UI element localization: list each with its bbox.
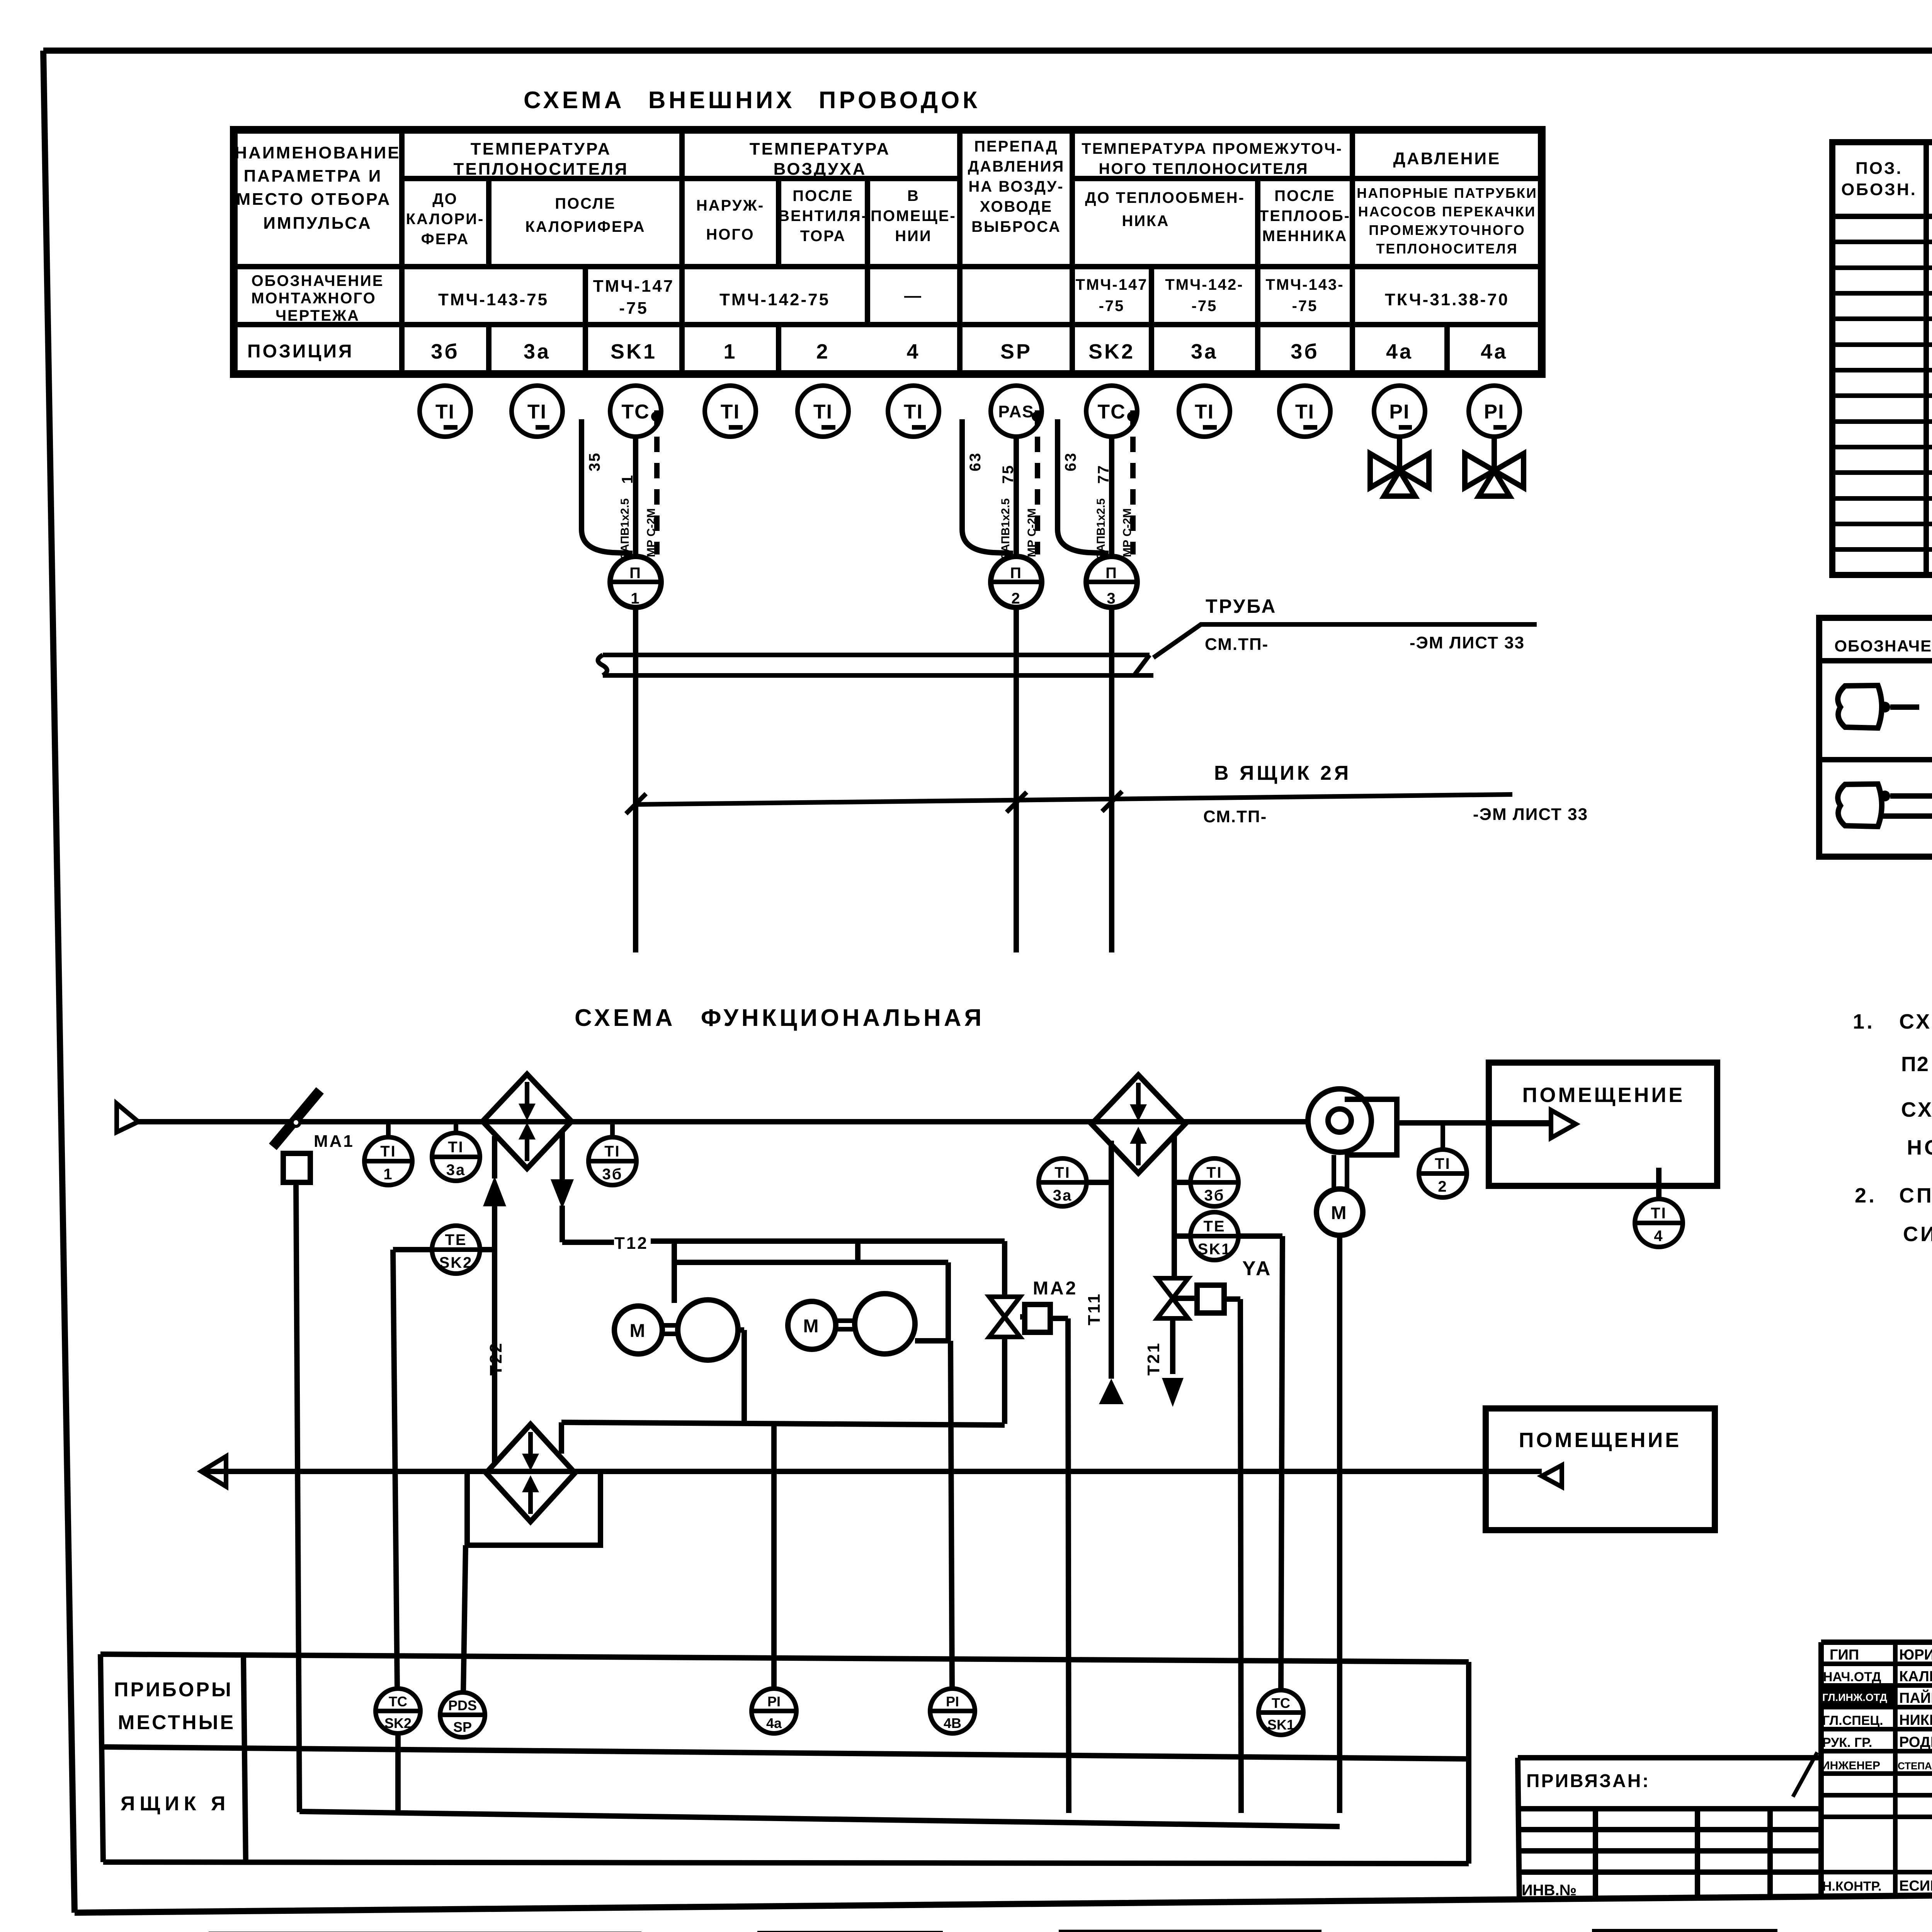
svg-text:75: 75 (1000, 464, 1017, 484)
svg-text:TC: TC (389, 1694, 407, 1709)
svg-text:1: 1 (383, 1166, 393, 1183)
svg-text:РУК. ГР.: РУК. ГР. (1822, 1735, 1872, 1750)
svg-text:ТЕМПЕРАТУРА: ТЕМПЕРАТУРА (471, 139, 611, 158)
svg-text:МОНТАЖНОГО: МОНТАЖНОГО (251, 290, 376, 307)
svg-text:3а: 3а (1053, 1187, 1073, 1204)
svg-text:TI: TI (1295, 401, 1315, 423)
svg-text:-75: -75 (1292, 298, 1318, 315)
svg-text:4а: 4а (1481, 340, 1508, 363)
svg-text:4а: 4а (766, 1715, 782, 1731)
svg-text:TI: TI (380, 1143, 396, 1160)
svg-text:TI: TI (448, 1139, 464, 1156)
svg-text:PI: PI (1389, 401, 1410, 423)
svg-text:НИКИТИН: НИКИТИН (1899, 1712, 1932, 1728)
svg-text:СТЕПАНОВСКАЯ: СТЕПАНОВСКАЯ (1898, 1760, 1932, 1772)
svg-text:В ЯЩИК 2Я: В ЯЩИК 2Я (1214, 762, 1351, 784)
svg-text:ЗАПВ1х2.5: ЗАПВ1х2.5 (1095, 498, 1107, 560)
svg-text:ПРИВЯЗАН:: ПРИВЯЗАН: (1526, 1771, 1650, 1791)
svg-text:ТРУБА: ТРУБА (1206, 595, 1277, 617)
svg-text:МЕСТО ОТБОРА: МЕСТО ОТБОРА (236, 190, 391, 209)
svg-text:ПОЗИЦИЯ: ПОЗИЦИЯ (247, 341, 354, 362)
svg-text:TE: TE (445, 1231, 467, 1248)
svg-text:ФЕРА: ФЕРА (421, 231, 469, 248)
svg-text:КАЛГАНОВ: КАЛГАНОВ (1899, 1668, 1932, 1685)
svg-text:П: П (1010, 565, 1022, 582)
svg-text:SK2: SK2 (1088, 340, 1135, 363)
svg-text:СМ.ТП-: СМ.ТП- (1203, 807, 1267, 826)
svg-text:1: 1 (723, 340, 737, 363)
svg-text:ДО ТЕПЛООБМЕН-: ДО ТЕПЛООБМЕН- (1085, 189, 1245, 206)
svg-text:PAS: PAS (998, 402, 1034, 421)
svg-text:Т21: Т21 (1144, 1342, 1163, 1376)
svg-text:РОДИОНОВА: РОДИОНОВА (1899, 1734, 1932, 1750)
svg-text:ГЛ.СПЕЦ.: ГЛ.СПЕЦ. (1822, 1713, 1883, 1728)
svg-text:МР С-2М: МР С-2М (1121, 508, 1134, 557)
svg-text:МЕННИКА: МЕННИКА (1262, 228, 1348, 245)
svg-text:ТЕПЛОНОСИТЕЛЯ: ТЕПЛОНОСИТЕЛЯ (453, 160, 628, 179)
svg-text:ПРОМЕЖУТОЧНОГО: ПРОМЕЖУТОЧНОГО (1369, 222, 1526, 238)
svg-text:ПОСЛЕ: ПОСЛЕ (1274, 187, 1335, 204)
svg-text:ПОМЕЩЕНИЕ: ПОМЕЩЕНИЕ (1522, 1083, 1685, 1107)
svg-text:TI: TI (1651, 1205, 1667, 1222)
svg-text:TI: TI (1206, 1164, 1223, 1181)
svg-text:SP: SP (1000, 340, 1032, 363)
svg-text:ЗАПВ1х2.5: ЗАПВ1х2.5 (619, 498, 631, 560)
svg-text:3б: 3б (1204, 1187, 1225, 1204)
svg-text:ПОСЛЕ: ПОСЛЕ (555, 195, 616, 212)
svg-text:3б: 3б (1291, 340, 1319, 363)
svg-text:TI: TI (1195, 401, 1214, 423)
svg-text:ИМПУЛЬСА: ИМПУЛЬСА (263, 214, 372, 233)
svg-text:1: 1 (631, 590, 640, 607)
svg-text:ТМЧ-147: ТМЧ-147 (593, 277, 675, 296)
svg-text:Т11: Т11 (1085, 1293, 1104, 1325)
svg-text:SP: SP (453, 1719, 472, 1735)
svg-text:TI: TI (1435, 1155, 1451, 1172)
svg-text:ПАЙКИН: ПАЙКИН (1899, 1689, 1932, 1706)
svg-text:3а: 3а (446, 1162, 466, 1179)
svg-text:ПРИБОРЫ: ПРИБОРЫ (114, 1679, 233, 1701)
svg-text:П: П (1105, 565, 1118, 582)
svg-text:В: В (907, 187, 920, 204)
svg-text:ДАВЛЕНИЯ: ДАВЛЕНИЯ (968, 158, 1065, 175)
svg-text:М: М (803, 1316, 821, 1337)
svg-text:ПАРАМЕТРА И: ПАРАМЕТРА И (244, 167, 383, 185)
svg-text:—: — (904, 286, 923, 305)
svg-text:ТМЧ-142-75: ТМЧ-142-75 (719, 290, 830, 309)
svg-text:SK1: SK1 (1198, 1241, 1231, 1258)
svg-text:2: 2 (1011, 590, 1021, 607)
svg-text:ОБОЗНАЧЕНИЕ: ОБОЗНАЧЕНИЕ (1834, 637, 1932, 655)
svg-text:ЕСИНА: ЕСИНА (1899, 1878, 1932, 1894)
svg-text:ИНЖЕНЕР: ИНЖЕНЕР (1821, 1759, 1880, 1772)
svg-text:ТМЧ-142-: ТМЧ-142- (1165, 276, 1243, 293)
svg-text:М: М (630, 1321, 647, 1341)
svg-text:СИСТЕМ.: СИСТЕМ. (1903, 1223, 1932, 1246)
svg-text:НА ВОЗДУ-: НА ВОЗДУ- (968, 178, 1064, 195)
svg-text:ТЕМПЕРАТУРА ПРОМЕЖУТОЧ-: ТЕМПЕРАТУРА ПРОМЕЖУТОЧ- (1082, 140, 1342, 157)
svg-text:ТЕПЛООБ-: ТЕПЛООБ- (1259, 207, 1350, 224)
svg-text:КАЛОРИФЕРА: КАЛОРИФЕРА (525, 218, 645, 235)
svg-text:PI: PI (1484, 401, 1504, 423)
svg-text:НИИ: НИИ (895, 228, 932, 245)
svg-text:Т22: Т22 (486, 1342, 505, 1376)
svg-text:1: 1 (619, 474, 636, 484)
svg-text:TC: TC (1097, 401, 1126, 423)
svg-text:МА2: МА2 (1033, 1278, 1078, 1299)
svg-text:МА1: МА1 (314, 1132, 354, 1151)
svg-text:ТМЧ-143-75: ТМЧ-143-75 (438, 290, 549, 309)
svg-text:ОБОЗН.: ОБОЗН. (1841, 180, 1917, 199)
svg-text:TC: TC (1272, 1695, 1290, 1711)
svg-text:4В: 4В (944, 1715, 961, 1731)
svg-text:-ЭМ ЛИСТ 33: -ЭМ ЛИСТ 33 (1410, 633, 1525, 652)
svg-text:НОМЕРАМ ПРИВОДОВ.: НОМЕРАМ ПРИВОДОВ. (1907, 1136, 1932, 1159)
svg-text:SK2: SK2 (439, 1254, 473, 1271)
svg-text:НОГО ТЕПЛОНОСИТЕЛЯ: НОГО ТЕПЛОНОСИТЕЛЯ (1099, 160, 1309, 177)
svg-text:П2 (ПРИВОД 2) И ПРИМЕНИМЫ ДЛЯ: П2 (ПРИВОД 2) И ПРИМЕНИМЫ ДЛЯ СИСТЕМ П3,… (1901, 1053, 1932, 1076)
svg-text:НИКА: НИКА (1122, 213, 1170, 230)
svg-text:4а: 4а (1386, 340, 1413, 363)
svg-text:КАЛОРИ-: КАЛОРИ- (406, 211, 485, 228)
svg-text:ДАВЛЕНИЕ: ДАВЛЕНИЕ (1393, 149, 1501, 168)
svg-text:МР С-2М: МР С-2М (1026, 508, 1038, 557)
svg-text:ГЛ.ИНЖ.ОТД: ГЛ.ИНЖ.ОТД (1822, 1692, 1887, 1703)
svg-text:ДО: ДО (432, 190, 458, 207)
svg-text:СХЕМА ФУНКЦИОНАЛЬНАЯ: СХЕМА ФУНКЦИОНАЛЬНАЯ (575, 1005, 985, 1031)
svg-text:ПОМЕЩЕНИЕ: ПОМЕЩЕНИЕ (1519, 1429, 1682, 1452)
svg-text:TE: TE (1203, 1218, 1225, 1235)
svg-text:TI: TI (435, 401, 455, 423)
svg-text:ТМЧ-143-: ТМЧ-143- (1265, 276, 1344, 293)
svg-text:TI: TI (604, 1143, 621, 1160)
svg-text:Т12: Т12 (614, 1234, 648, 1253)
svg-text:TI: TI (904, 401, 923, 423)
svg-text:Н.КОНТР.: Н.КОНТР. (1822, 1879, 1882, 1894)
svg-text:3б: 3б (431, 340, 459, 363)
svg-text:ЮРИН: ЮРИН (1899, 1647, 1932, 1663)
svg-text:3б: 3б (602, 1166, 623, 1183)
svg-text:МЕСТНЫЕ: МЕСТНЫЕ (118, 1711, 235, 1734)
svg-text:ОБОЗНАЧЕНИЕ: ОБОЗНАЧЕНИЕ (252, 272, 384, 289)
svg-text:TI: TI (721, 401, 740, 423)
svg-text:YA: YA (1242, 1257, 1272, 1280)
svg-text:ЯЩИК Я: ЯЩИК Я (121, 1793, 230, 1815)
svg-text:ТОРА: ТОРА (800, 228, 846, 245)
svg-text:-75: -75 (1192, 298, 1218, 315)
svg-text:М: М (1331, 1203, 1349, 1223)
svg-text:3: 3 (1107, 590, 1116, 607)
svg-text:-ЭМ ЛИСТ 33: -ЭМ ЛИСТ 33 (1473, 805, 1588, 824)
svg-text:TC: TC (621, 401, 650, 423)
svg-text:НАПОРНЫЕ ПАТРУБКИ: НАПОРНЫЕ ПАТРУБКИ (1357, 185, 1537, 201)
svg-text:ГИП: ГИП (1830, 1647, 1859, 1663)
svg-text:ХОВОДЕ: ХОВОДЕ (980, 198, 1053, 215)
svg-text:НАИМЕНОВАНИЕ: НАИМЕНОВАНИЕ (235, 143, 400, 162)
svg-text:PDS: PDS (448, 1697, 477, 1713)
svg-text:НАРУЖ-: НАРУЖ- (696, 197, 764, 214)
svg-text:ВЫБРОСА: ВЫБРОСА (971, 218, 1061, 235)
svg-text:ПОЗ.: ПОЗ. (1855, 159, 1903, 178)
svg-text:ТЕПЛОНОСИТЕЛЯ: ТЕПЛОНОСИТЕЛЯ (1376, 241, 1518, 257)
svg-text:63: 63 (967, 452, 984, 472)
svg-text:П: П (629, 565, 642, 582)
svg-text:-75: -75 (1099, 298, 1125, 315)
svg-text:МР С-2М: МР С-2М (645, 508, 658, 557)
svg-text:ПЕРЕПАД: ПЕРЕПАД (974, 138, 1058, 155)
svg-text:НАЧ.ОТД: НАЧ.ОТД (1823, 1670, 1881, 1684)
svg-text:СХЕМЫ ЧИТАТЬ С ИНДЕКСАМИ, СООТ: СХЕМЫ ЧИТАТЬ С ИНДЕКСАМИ, СООТВЕТСТВУЮЩИ… (1901, 1098, 1932, 1121)
svg-text:СПЕЦИФИКАЦИЯ ДАНА ДЛЯ ВСЕХ ПРИ: СПЕЦИФИКАЦИЯ ДАНА ДЛЯ ВСЕХ ПРИТОЧНЫХ (1899, 1184, 1932, 1207)
svg-text:СХЕМЫ СОСТАВЛЕНЫ ДЛЯ ПРИТОЧНОЙ: СХЕМЫ СОСТАВЛЕНЫ ДЛЯ ПРИТОЧНОЙ СИСТЕМЫ (1899, 1010, 1932, 1033)
svg-text:3а: 3а (524, 340, 551, 363)
svg-text:PI: PI (946, 1694, 959, 1709)
svg-text:SK1: SK1 (1267, 1717, 1294, 1733)
svg-text:SK2: SK2 (384, 1715, 412, 1731)
svg-text:НАСОСОВ ПЕРЕКАЧКИ: НАСОСОВ ПЕРЕКАЧКИ (1358, 204, 1536, 219)
svg-text:НОГО: НОГО (706, 226, 754, 243)
svg-text:ТКЧ-31.38-70: ТКЧ-31.38-70 (1385, 290, 1509, 309)
svg-text:2: 2 (816, 340, 830, 363)
svg-text:63: 63 (1062, 452, 1079, 472)
svg-text:2.: 2. (1855, 1184, 1877, 1207)
svg-text:4: 4 (906, 340, 920, 363)
svg-text:1.: 1. (1853, 1010, 1875, 1033)
svg-text:TI: TI (527, 401, 547, 423)
svg-text:СХЕМА ВНЕШНИХ ПРОВОДОК: СХЕМА ВНЕШНИХ ПРОВОДОК (524, 87, 980, 114)
svg-text:ПОМЕЩЕ-: ПОМЕЩЕ- (871, 207, 956, 224)
svg-text:TI: TI (813, 401, 833, 423)
svg-text:ВЕНТИЛЯ-: ВЕНТИЛЯ- (778, 207, 868, 224)
svg-text:2: 2 (1438, 1178, 1447, 1195)
svg-text:TI: TI (1054, 1164, 1071, 1181)
svg-text:77: 77 (1095, 464, 1112, 484)
svg-text:ИНВ.№: ИНВ.№ (1522, 1882, 1577, 1899)
svg-text:PI: PI (767, 1694, 781, 1709)
svg-text:3а: 3а (1191, 340, 1218, 363)
svg-text:ЧЕРТЕЖА: ЧЕРТЕЖА (276, 307, 360, 324)
svg-text:ВОЗДУХА: ВОЗДУХА (774, 160, 867, 179)
svg-text:35: 35 (586, 452, 603, 472)
svg-text:SK1: SK1 (611, 340, 657, 363)
svg-text:-75: -75 (619, 299, 648, 318)
svg-text:ТМЧ-147: ТМЧ-147 (1076, 276, 1148, 293)
svg-text:ЗАПВ1х2.5: ЗАПВ1х2.5 (999, 498, 1012, 560)
svg-text:4: 4 (1654, 1228, 1663, 1245)
svg-text:ПОСЛЕ: ПОСЛЕ (793, 187, 854, 204)
svg-text:СМ.ТП-: СМ.ТП- (1205, 635, 1269, 654)
svg-text:ТЕМПЕРАТУРА: ТЕМПЕРАТУРА (750, 139, 890, 158)
